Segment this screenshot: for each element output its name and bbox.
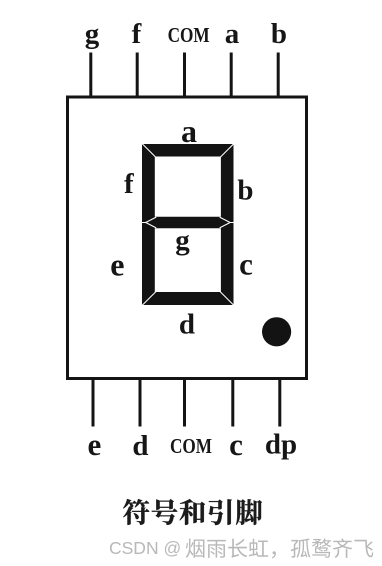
decimal point dp [262,317,291,346]
svg-text:g: g [85,18,100,50]
svg-text:dp: dp [265,429,297,461]
pin c wire (bottom) [231,379,234,427]
pin e wire (bottom) [92,379,95,427]
svg-text:c: c [239,247,253,282]
svg-text:a: a [225,18,240,50]
package outline box [68,97,307,379]
pin g wire (top) [89,53,92,99]
svg-text:e: e [88,427,102,462]
svg-text:g: g [175,225,190,257]
pin dp wire (bottom) [278,379,281,427]
svg-text:d: d [179,309,195,341]
svg-text:c: c [229,427,243,462]
svg-text:d: d [132,430,148,462]
svg-text:e: e [110,247,124,283]
svg-text:b: b [271,18,287,50]
pin f wire (top) [136,53,139,99]
pin a wire (top) [230,53,233,99]
svg-text:f: f [124,168,134,200]
svg-text:COM: COM [168,25,210,48]
svg-text:CSDN @: CSDN @ [109,538,181,558]
pin b wire (top) [277,53,280,99]
svg-text:COM: COM [170,436,212,459]
pin COM wire (top) [183,53,186,99]
segment a (top bar) [142,144,234,305]
svg-text:b: b [237,175,253,207]
caption 符号和引脚 (symbol and pins) [123,499,262,525]
svg-text:f: f [132,18,142,50]
pin d wire (bottom) [139,379,142,427]
pin COM wire (bottom) [183,379,186,427]
svg-text:a: a [181,113,197,149]
segment f (upper left), segment b (upper right), segment g (middle), segment e (lower left), segment c (lower right), segment d (bottom): cut lines [142,143,235,306]
watermark 烟雨长虹，孤鹜齐飞 [186,538,373,558]
